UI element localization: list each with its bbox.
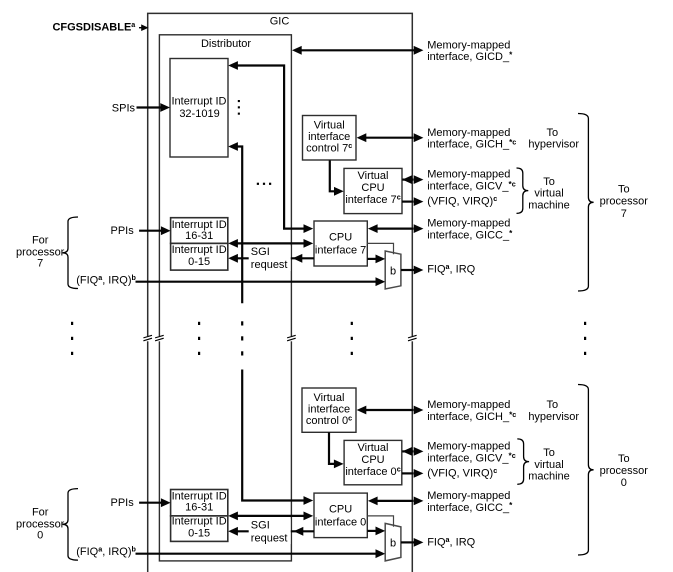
Memory-mapped interface GICD label bbox=[427, 39, 513, 63]
Distributor box bbox=[159, 35, 291, 561]
mux b label (processor 0) bbox=[390, 538, 396, 550]
Memory-mapped interface GICH label (processor 0) bbox=[427, 399, 516, 423]
mux b label (processor 7) bbox=[390, 265, 396, 277]
svg-text:Virtual: Virtual bbox=[314, 119, 345, 131]
To processor 0 label bbox=[600, 453, 649, 489]
break mark on Distributor left edge bbox=[155, 335, 164, 341]
For processor 0 label bbox=[16, 507, 65, 542]
Memory-mapped GICH wire (processor 0) bbox=[357, 406, 424, 415]
GIC enclosure box bbox=[148, 13, 413, 572]
svg-text:interface 7: interface 7 bbox=[315, 245, 366, 257]
FIQ IRQ output wire (processor 7) bbox=[401, 266, 424, 275]
PPIs arrow (processor 0) bbox=[139, 498, 171, 507]
svg-text:0-15: 0-15 bbox=[188, 528, 210, 540]
brace for processor 7 inputs bbox=[62, 217, 78, 289]
svg-text:FIQa, IRQ: FIQa, IRQ bbox=[427, 262, 475, 275]
vertical ellipsis right of Interrupt ID 32-1019 box bbox=[238, 100, 240, 115]
svg-text:CFGSDISABLEa: CFGSDISABLEa bbox=[52, 20, 136, 33]
vertical ellipsis (right brace column) bbox=[584, 322, 586, 355]
Memory-mapped GICD wire bbox=[292, 46, 423, 55]
Memory-mapped GICC wire (processor 0) bbox=[368, 497, 424, 506]
svg-text:virtual: virtual bbox=[534, 459, 563, 471]
To hypervisor label (processor 7) bbox=[528, 127, 579, 151]
svg-text:interface: interface bbox=[308, 131, 350, 143]
Virtual interface control 7 box bbox=[303, 116, 357, 161]
svg-text:request: request bbox=[251, 533, 288, 545]
Virtual interface control 0 label bbox=[306, 392, 352, 427]
SGI request label (processor 7) bbox=[251, 246, 288, 271]
svg-text:Virtual: Virtual bbox=[358, 170, 389, 182]
vertical ellipsis (Interrupt ID column) bbox=[198, 322, 200, 355]
Interrupt ID 16-31 box (processor 7) bbox=[171, 218, 228, 244]
(FIQ, IRQ) label (processor 0) bbox=[76, 545, 136, 558]
Virtual CPU interface 7 box bbox=[344, 168, 402, 213]
ellipsis break in vertical wire bbox=[241, 321, 243, 355]
svg-text:SGI: SGI bbox=[251, 519, 270, 531]
svg-text:hypervisor: hypervisor bbox=[528, 139, 579, 151]
FIQ IRQ label (processor 0) bbox=[427, 535, 475, 548]
svg-text:0: 0 bbox=[37, 529, 43, 541]
svg-text:(VFIQ, VIRQ)c: (VFIQ, VIRQ)c bbox=[427, 466, 497, 479]
Memory-mapped GICH wire (processor 7) bbox=[357, 133, 424, 142]
(FIQ, IRQ) wire to mux (processor 0) bbox=[136, 549, 386, 558]
CPU interface 7 label bbox=[315, 232, 366, 257]
SGI request wire (processor 0) bbox=[228, 519, 314, 544]
svg-text:interface, GICC_*: interface, GICC_* bbox=[427, 501, 513, 514]
For processor 7 label bbox=[16, 235, 65, 270]
wire CPU interface 7 to mux bbox=[367, 255, 385, 264]
svg-text:Memory-mapped: Memory-mapped bbox=[427, 441, 510, 453]
svg-text:(FIQa, IRQ)b: (FIQa, IRQ)b bbox=[76, 545, 136, 558]
svg-text:FIQa, IRQ: FIQa, IRQ bbox=[427, 535, 475, 548]
svg-text:To: To bbox=[543, 447, 555, 459]
svg-text:machine: machine bbox=[528, 199, 570, 211]
svg-text:GIC: GIC bbox=[270, 16, 290, 28]
svg-text:To: To bbox=[618, 453, 630, 465]
break mark on GIC right edge bbox=[408, 335, 417, 341]
svg-text:For: For bbox=[32, 235, 49, 247]
svg-text:(FIQa, IRQ)b: (FIQa, IRQ)b bbox=[76, 273, 136, 286]
Interrupt ID 16-31 box (processor 0) bbox=[171, 490, 228, 516]
svg-text:hypervisor: hypervisor bbox=[528, 411, 579, 423]
break mark on Distributor right edge bbox=[287, 335, 296, 341]
Memory-mapped interface GICC label (processor 7) bbox=[427, 218, 513, 242]
svg-text:CPU: CPU bbox=[329, 232, 352, 244]
svg-text:machine: machine bbox=[528, 471, 570, 483]
svg-text:interface 7c: interface 7c bbox=[345, 193, 400, 206]
CFGSDISABLE label bbox=[52, 20, 136, 33]
svg-text:processor: processor bbox=[600, 196, 649, 208]
svg-text:Memory-mapped: Memory-mapped bbox=[427, 39, 510, 51]
Virtual CPU interface 7 label bbox=[345, 170, 400, 206]
svg-text:Virtual: Virtual bbox=[358, 442, 389, 454]
svg-text:Interrupt ID: Interrupt ID bbox=[172, 244, 227, 256]
PPIs label (processor 0) bbox=[111, 497, 135, 509]
bidirectional wire Interrupt ID boxes to CPU interface 0 bbox=[228, 512, 313, 521]
svg-text:Interrupt ID: Interrupt ID bbox=[172, 516, 227, 528]
FIQ IRQ output wire (processor 0) bbox=[401, 538, 424, 547]
svg-text:7: 7 bbox=[621, 208, 627, 220]
svg-text:For: For bbox=[32, 507, 49, 519]
Interrupt ID 16-31 label (processor 0) bbox=[172, 491, 227, 514]
bidirectional wire Interrupt ID boxes to CPU interface 7 bbox=[228, 239, 313, 248]
svg-text:interface, GICV_*c: interface, GICV_*c bbox=[427, 451, 516, 464]
Memory-mapped interface GICC label (processor 0) bbox=[427, 490, 513, 514]
svg-text:interface 0: interface 0 bbox=[315, 517, 366, 529]
svg-text:CPU: CPU bbox=[361, 182, 384, 194]
svg-text:interface, GICH_*c: interface, GICH_*c bbox=[427, 410, 516, 423]
Virtual interface control 7 label bbox=[306, 119, 352, 154]
To virtual machine label (processor 7) bbox=[528, 176, 570, 212]
svg-text:SGI: SGI bbox=[251, 246, 270, 258]
Virtual CPU interface 0 box bbox=[344, 440, 402, 484]
brace to virtual machine (processor 0) bbox=[517, 439, 529, 484]
svg-text:To: To bbox=[618, 184, 630, 196]
VFIQ VIRQ label (processor 0) bbox=[427, 466, 497, 479]
svg-text:SPIs: SPIs bbox=[112, 102, 136, 114]
svg-text:Memory-mapped: Memory-mapped bbox=[427, 169, 510, 181]
vertical ellipsis (left brace column) bbox=[71, 322, 73, 355]
svg-text:0-15: 0-15 bbox=[188, 256, 210, 268]
Memory-mapped interface GICV label (processor 7) bbox=[427, 169, 516, 193]
svg-text:7: 7 bbox=[37, 258, 43, 270]
FIQ IRQ label (processor 7) bbox=[427, 262, 475, 275]
VFIQ VIRQ label (processor 7) bbox=[427, 194, 497, 207]
svg-text:0: 0 bbox=[621, 477, 627, 489]
Interrupt ID 0-15 label (processor 0) bbox=[172, 516, 227, 540]
SGI request label (processor 0) bbox=[251, 519, 288, 544]
wire CPU interface 7 to mux top bbox=[367, 243, 393, 254]
horizontal ellipsis between SGI paths bbox=[257, 183, 271, 185]
To processor 7 label bbox=[600, 184, 649, 220]
svg-text:processor: processor bbox=[600, 465, 649, 477]
Interrupt ID 0-15 label (processor 7) bbox=[172, 244, 227, 268]
Distributor label bbox=[201, 38, 251, 50]
svg-text:32-1019: 32-1019 bbox=[179, 108, 219, 120]
svg-text:To: To bbox=[543, 176, 555, 188]
mux b (processor 7) bbox=[385, 251, 401, 289]
CFGSDISABLE arrow into GIC bbox=[139, 24, 149, 31]
wire Virtual interface control 0 to Virtual CPU interface 0 bbox=[329, 432, 344, 468]
svg-text:Virtual: Virtual bbox=[314, 392, 345, 404]
svg-text:virtual: virtual bbox=[534, 188, 563, 200]
svg-text:(VFIQ, VIRQ)c: (VFIQ, VIRQ)c bbox=[427, 194, 497, 207]
Interrupt ID 0-15 box (processor 0) bbox=[171, 516, 228, 542]
brace for processor 0 inputs bbox=[62, 489, 78, 560]
svg-text:CPU: CPU bbox=[361, 454, 384, 466]
svg-text:Memory-mapped: Memory-mapped bbox=[427, 218, 510, 230]
svg-text:request: request bbox=[251, 259, 288, 271]
wire Interrupt ID 32-1019 to CPU interface 0 (lower segment) bbox=[242, 370, 313, 505]
Interrupt ID 16-31 label (processor 7) bbox=[172, 219, 227, 242]
wire CPU interface 0 to mux bbox=[367, 527, 385, 536]
svg-text:Distributor: Distributor bbox=[201, 38, 251, 50]
svg-text:Memory-mapped: Memory-mapped bbox=[427, 127, 510, 139]
(FIQ, IRQ) wire to mux (processor 7) bbox=[136, 277, 386, 286]
svg-text:interface: interface bbox=[308, 404, 350, 416]
To virtual machine label (processor 0) bbox=[528, 447, 570, 483]
VFIQ VIRQ wire (processor 7) bbox=[402, 197, 423, 206]
svg-text:control 7c: control 7c bbox=[306, 141, 352, 154]
svg-text:Memory-mapped: Memory-mapped bbox=[427, 399, 510, 411]
svg-text:interface, GICH_*c: interface, GICH_*c bbox=[427, 138, 516, 151]
svg-text:interface, GICV_*c: interface, GICV_*c bbox=[427, 179, 516, 192]
Memory-mapped GICV wire (processor 7) bbox=[402, 175, 423, 184]
svg-text:CPU: CPU bbox=[329, 504, 352, 516]
svg-text:control 0c: control 0c bbox=[306, 414, 352, 427]
PPIs arrow (processor 7) bbox=[139, 226, 171, 235]
GIC label bbox=[270, 16, 290, 28]
svg-text:16-31: 16-31 bbox=[185, 502, 213, 514]
wire Interrupt ID 32-1019 to CPU interface 0 (upper segment) bbox=[228, 142, 242, 303]
SPIs label bbox=[112, 102, 136, 114]
svg-text:16-31: 16-31 bbox=[185, 230, 213, 242]
PPIs label (processor 7) bbox=[111, 225, 135, 237]
svg-text:interface, GICD_*: interface, GICD_* bbox=[427, 51, 513, 64]
vertical ellipsis (virtual interface column) bbox=[351, 322, 353, 355]
svg-text:interface 0c: interface 0c bbox=[345, 465, 400, 478]
svg-text:To: To bbox=[546, 399, 558, 411]
svg-text:PPIs: PPIs bbox=[111, 497, 135, 509]
CPU interface 0 box bbox=[314, 493, 367, 537]
wire Interrupt ID 32-1019 to CPU interface 7 bbox=[228, 61, 313, 233]
Virtual CPU interface 0 label bbox=[345, 442, 400, 478]
svg-text:Interrupt ID: Interrupt ID bbox=[171, 96, 226, 108]
Virtual interface control 0 box bbox=[302, 388, 356, 432]
brace to virtual machine (processor 7) bbox=[517, 168, 529, 213]
svg-text:To: To bbox=[546, 127, 558, 139]
Interrupt ID 32-1019 label bbox=[171, 96, 226, 120]
CPU interface 0 label bbox=[315, 504, 366, 529]
svg-text:Memory-mapped: Memory-mapped bbox=[427, 490, 510, 502]
Interrupt ID 32-1019 box bbox=[170, 59, 228, 158]
SGI request wire (processor 7) bbox=[228, 246, 314, 271]
brace to processor 7 bbox=[578, 114, 594, 292]
wire CPU interface 0 to mux top bbox=[367, 516, 393, 527]
VFIQ VIRQ wire (processor 0) bbox=[402, 469, 423, 478]
SPIs arrow into Interrupt ID 32-1019 bbox=[137, 103, 171, 112]
To hypervisor label (processor 0) bbox=[528, 399, 579, 423]
(FIQ, IRQ) label (processor 7) bbox=[76, 273, 136, 286]
mux b (processor 0) bbox=[385, 523, 401, 561]
svg-text:b: b bbox=[390, 538, 396, 550]
brace to processor 0 bbox=[578, 385, 594, 556]
Memory-mapped GICC wire (processor 7) bbox=[368, 224, 424, 233]
Memory-mapped interface GICH label (processor 7) bbox=[427, 127, 516, 151]
svg-text:PPIs: PPIs bbox=[111, 225, 135, 237]
Memory-mapped interface GICV label (processor 0) bbox=[427, 441, 516, 465]
svg-text:interface, GICC_*: interface, GICC_* bbox=[427, 229, 513, 242]
CPU interface 7 box bbox=[314, 221, 367, 266]
break mark on GIC left edge bbox=[143, 335, 152, 341]
svg-text:b: b bbox=[390, 265, 396, 277]
Memory-mapped GICV wire (processor 0) bbox=[402, 447, 423, 456]
wire Virtual interface control 7 to Virtual CPU interface 7 bbox=[330, 160, 344, 195]
Interrupt ID 0-15 box (processor 7) bbox=[171, 243, 228, 270]
